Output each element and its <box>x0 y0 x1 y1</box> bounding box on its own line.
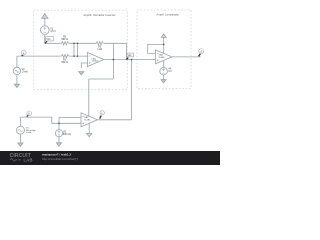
wire down to op-amp2 <box>88 79 90 116</box>
voltage source V4 <box>160 67 168 75</box>
voltage source V2 stem <box>16 56 18 67</box>
voltage source V1 <box>41 26 50 35</box>
ground U1 <box>79 72 84 75</box>
svg-text:http://circuitlab.com/c6w7j7: http://circuitlab.com/c6w7j7 <box>42 157 78 161</box>
wire comparator minus input path <box>148 44 164 53</box>
resistor R2 <box>61 42 68 45</box>
voltage source V2 (AC) <box>13 67 20 74</box>
voltage source V5 <box>55 130 62 137</box>
node flag op-amp2 output <box>100 111 105 119</box>
labels <box>22 27 173 136</box>
junction V5/plus-input <box>58 123 60 125</box>
junction supply/comparator <box>163 44 165 46</box>
junction output/long vertical <box>131 59 133 61</box>
node flag comparator output <box>199 49 204 57</box>
wire node verticals <box>74 43 77 56</box>
wire V3 to ground <box>19 134 21 143</box>
junction node A top-right <box>77 43 79 45</box>
wire branch up to minus input <box>59 118 81 124</box>
voltage source V3 stem <box>19 117 21 126</box>
ground op-amp2 <box>87 133 92 136</box>
wire to op-amp inverting input <box>69 55 87 57</box>
node flag V1 bottom <box>45 37 54 44</box>
wire comparator power vertical <box>163 44 165 67</box>
svg-text:Amplif. Comparador: Amplif. Comparador <box>157 13 180 17</box>
svg-text:1 kHz: 1 kHz <box>22 71 29 74</box>
op-amp U1 <box>87 53 104 67</box>
wire V5 to ground <box>58 137 60 143</box>
voltage source V3 (AC) <box>16 126 24 134</box>
wire top rail left <box>45 42 62 44</box>
node flag V2 <box>21 50 26 56</box>
svg-text:TL081: TL081 <box>92 61 99 63</box>
resistor R1 <box>61 54 68 57</box>
ground V3 <box>18 143 23 146</box>
voltage source V5 stem <box>58 123 60 130</box>
wire top rail right <box>104 42 127 44</box>
svg-text:marianacr7 / trab1.2: marianacr7 / trab1.2 <box>42 153 72 157</box>
junction node A bottom-right <box>77 55 79 57</box>
svg-text:Vs1: Vs1 <box>46 38 51 41</box>
wire feedback down <box>112 43 114 79</box>
wire V2 to ground <box>16 75 18 85</box>
watermark footer bar <box>0 151 220 165</box>
svg-text:990 Ω: 990 Ω <box>61 38 68 41</box>
junction feedback/output <box>113 59 115 61</box>
wire to op-amp2 plus input <box>52 122 81 124</box>
wire across <box>89 78 114 80</box>
op-amp U3 comparator <box>155 50 172 64</box>
svg-text:Amplif. Somador Inversor: Amplif. Somador Inversor <box>83 13 115 17</box>
wire output up long vertical <box>130 60 132 120</box>
wire bottom rail <box>17 55 62 57</box>
junction node A bottom-left <box>73 55 75 57</box>
wire top rail mid <box>69 42 96 44</box>
wire op-amp1 output <box>104 59 155 61</box>
wire V4 to ground <box>163 75 165 80</box>
box Amplificador Somador Inversor <box>34 10 128 90</box>
svg-text:1 kΩ: 1 kΩ <box>97 48 102 51</box>
wire comparator output <box>172 56 201 58</box>
ground V4 <box>161 80 166 83</box>
wire op-amp2 V- pin to ground <box>88 123 90 133</box>
node flag op-amp1 output <box>126 53 133 60</box>
op-amp U1 plus stub to ground <box>81 63 87 68</box>
node flag V3 <box>27 111 32 117</box>
wire bend down to output <box>125 43 127 59</box>
svg-text:1 kHz: 1 kHz <box>26 132 32 134</box>
svg-text:TL081: TL081 <box>84 120 91 122</box>
wire V3 horizontal <box>20 116 51 118</box>
wire V1 stem <box>44 34 46 43</box>
svg-text:500 mV: 500 mV <box>63 133 72 136</box>
junction node A top-left <box>73 43 75 45</box>
svg-text:500 Ω: 500 Ω <box>61 61 68 64</box>
wire op-amp2 output <box>98 119 132 121</box>
ground V5 <box>56 143 61 146</box>
supply arrow comparator <box>163 37 165 44</box>
svg-text:4.5 V: 4.5 V <box>50 30 56 33</box>
supply arrow V1 top <box>44 18 46 26</box>
box Comparador <box>137 10 191 89</box>
wire jog down <box>51 117 53 123</box>
svg-text:vo1: vo1 <box>128 54 133 57</box>
resistor R3 feedback <box>96 42 103 45</box>
svg-text:TL081: TL081 <box>158 57 165 59</box>
op-amp U2 <box>81 113 98 127</box>
svg-text:3 V: 3 V <box>168 70 172 73</box>
svg-text:LAB: LAB <box>24 158 33 163</box>
ground V2 <box>14 84 19 87</box>
